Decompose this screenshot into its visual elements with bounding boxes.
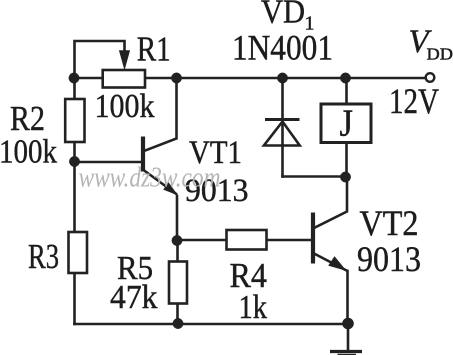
- node at R1 left / top of left rail: [69, 73, 79, 83]
- wire VT2 collector: [314, 177, 347, 228]
- svg-text:1k: 1k: [239, 289, 268, 326]
- wire diode stem through triangle: [281, 78, 284, 177]
- svg-text:100k: 100k: [95, 88, 155, 125]
- svg-text:VT2: VT2: [360, 203, 419, 243]
- node at R5 bottom rail: [173, 318, 183, 328]
- wire R4 base wire: [177, 239, 312, 242]
- svg-text:R3: R3: [28, 237, 59, 276]
- svg-text:12V: 12V: [389, 81, 439, 121]
- svg-text:1N4001: 1N4001: [232, 28, 333, 68]
- svg-text:DD: DD: [427, 45, 453, 64]
- diode VD1 cathode bar: [265, 118, 300, 121]
- wire VT2 emitter rail to ground node: [346, 271, 349, 324]
- wire relay bottom stem: [345, 143, 348, 178]
- node at R1 right / VT1 collector: [171, 73, 181, 83]
- svg-text:47k: 47k: [110, 279, 158, 316]
- node at R2 bottom / VT1 base: [69, 156, 79, 166]
- transistor VT2 base bar: [311, 213, 315, 264]
- wire top rail VDD: [74, 77, 426, 80]
- node at ground / VT2 emitter: [342, 318, 353, 329]
- svg-text:R1: R1: [137, 30, 171, 69]
- svg-text:www.dz3w.com: www.dz3w.com: [79, 162, 221, 194]
- node at VT1 emitter / R5 / R4: [172, 235, 182, 245]
- ground: [330, 324, 362, 355]
- svg-text:J: J: [340, 103, 354, 145]
- diode VD1 triangle: [264, 122, 300, 146]
- svg-text:VD: VD: [261, 0, 305, 31]
- wire left rail: [73, 78, 76, 324]
- node at diode bottom / relay bottom: [340, 172, 350, 182]
- wire R1 wiper loop: [75, 41, 125, 78]
- resistor R2 body: [65, 99, 84, 142]
- resistor R5 body: [169, 262, 187, 304]
- resistor R4 body: [227, 230, 267, 250]
- wire VT1 collector to top rail: [144, 78, 177, 151]
- wire bottom rail: [75, 323, 349, 326]
- node at diode top: [277, 73, 287, 83]
- svg-text:R2: R2: [10, 99, 45, 138]
- transistor VT2 emitter with arrow: [314, 254, 348, 272]
- transistor VT1 emitter with arrow: [144, 170, 178, 195]
- transistor VT1 base bar: [141, 137, 145, 172]
- wire R5 bottom stem: [176, 241, 179, 324]
- node at relay top: [340, 73, 350, 83]
- svg-text:9013: 9013: [357, 239, 421, 279]
- svg-text:100k: 100k: [0, 134, 57, 171]
- resistor R3 body: [69, 232, 88, 273]
- VDD terminal circle: [426, 73, 435, 82]
- wire VT1 base wire: [75, 161, 142, 164]
- R1 wiper arrow: [119, 51, 130, 70]
- wire relay top stem: [345, 78, 348, 104]
- resistor R1 body (potentiometer): [103, 70, 145, 88]
- wire diode bottom to relay node: [283, 175, 346, 178]
- wire VT1 emitter to R5 node: [176, 196, 179, 241]
- relay J box: [321, 104, 371, 143]
